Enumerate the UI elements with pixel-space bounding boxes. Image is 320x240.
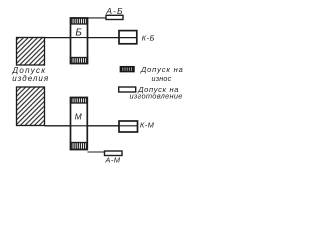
svg-text:Б: Б bbox=[75, 28, 82, 39]
svg-text:А-М: А-М bbox=[104, 155, 120, 164]
wire to A-Б bbox=[88, 17, 107, 19]
svg-text:К-М: К-М bbox=[140, 121, 155, 130]
gauge К-М box bbox=[119, 121, 138, 132]
wire to А-М bbox=[88, 151, 105, 153]
svg-text:М: М bbox=[75, 111, 83, 121]
wire: upper limit line bbox=[45, 37, 120, 39]
gauge К-Б box bbox=[119, 31, 137, 44]
svg-text:А-Б: А-Б bbox=[105, 6, 124, 16]
svg-text:изделия: изделия bbox=[12, 74, 49, 83]
legend label: Допуск на изготовление bbox=[130, 85, 183, 101]
gauge М box bbox=[71, 98, 88, 150]
product tolerance upper hatched block bbox=[17, 38, 45, 66]
legend label: Допуск на износ bbox=[140, 65, 184, 83]
product tolerance lower hatched block bbox=[17, 87, 45, 126]
wire: lower limit line bbox=[45, 125, 120, 127]
svg-text:износ: износ bbox=[152, 74, 172, 83]
label: Допуск изделия bbox=[12, 66, 50, 83]
gauge А-Б box bbox=[106, 15, 123, 19]
svg-text:Допуск на: Допуск на bbox=[140, 65, 184, 74]
legend: wear tolerance swatch bbox=[120, 67, 134, 72]
svg-text:изготовление: изготовление bbox=[130, 91, 183, 100]
gauge А-М box bbox=[105, 151, 123, 156]
svg-text:К-Б: К-Б bbox=[142, 33, 155, 42]
gauge Б box bbox=[71, 18, 88, 64]
legend: manufacturing tolerance swatch bbox=[119, 87, 136, 92]
